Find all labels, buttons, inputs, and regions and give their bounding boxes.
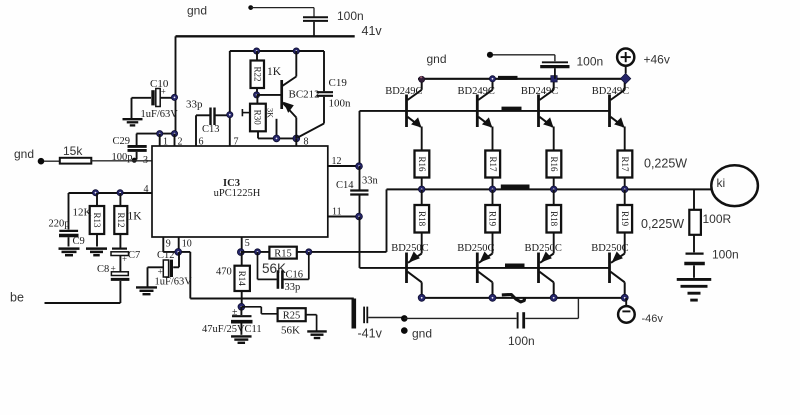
svg-text:1uF/63V: 1uF/63V: [155, 277, 193, 288]
svg-text:C7: C7: [128, 250, 140, 261]
svg-text:ki: ki: [717, 176, 726, 190]
svg-text:BD249C: BD249C: [385, 86, 422, 97]
svg-text:56K: 56K: [281, 325, 300, 337]
ground (C10): [123, 98, 143, 126]
svg-text:C14: C14: [336, 180, 354, 191]
svg-text:100n: 100n: [337, 9, 364, 23]
node: R22 top: [254, 48, 260, 54]
node: C16 right junction: [306, 249, 312, 255]
wire: thick dash on mid rail: [501, 185, 530, 189]
capacitor C7: [111, 249, 140, 272]
node: R12 top: [117, 190, 123, 196]
svg-text:0,225W: 0,225W: [644, 157, 687, 171]
svg-text:12K: 12K: [73, 207, 92, 219]
transistor Q8 BD250C (lower): [591, 243, 628, 298]
ground (R25): [307, 330, 327, 332]
ground (C11): [231, 335, 252, 337]
svg-text:33p: 33p: [186, 99, 203, 111]
resistor R18 (emitter, lower): [415, 189, 430, 253]
svg-text:C29: C29: [113, 136, 131, 147]
svg-text:R19: R19: [620, 211, 630, 227]
resistor R17 (emitter, upper): [618, 151, 633, 190]
node: BC212 collector top: [293, 48, 299, 54]
node: column 2 +46v rail: [489, 76, 495, 82]
resistor R17 (emitter, upper): [485, 151, 500, 190]
capacitor C16 33p: [258, 252, 309, 293]
capacitor 100n (zobel): [684, 248, 738, 278]
svg-text:33n: 33n: [362, 176, 379, 187]
svg-text:7: 7: [234, 137, 239, 148]
wire: output sense drop (mid rail to feedback line): [386, 189, 388, 252]
node: pin 8 junction: [293, 135, 300, 142]
svg-text:R17: R17: [488, 156, 498, 172]
svg-text:1: 1: [163, 137, 168, 148]
wire: base of BC212: [257, 94, 281, 96]
svg-text:C12: C12: [157, 250, 175, 261]
svg-text:C9: C9: [73, 236, 85, 247]
svg-text:R18: R18: [549, 211, 559, 227]
node: pin1 junction: [157, 131, 163, 137]
svg-text:2: 2: [178, 137, 183, 148]
svg-text:C11: C11: [245, 324, 262, 335]
node: C29 to pin3 wire junction: [132, 158, 137, 163]
transistor Q1 BD249C (upper): [385, 79, 422, 151]
node: C10 / 41v vertical junction: [171, 94, 177, 100]
resistor R12 1K: [114, 193, 142, 248]
node: column 1 mid rail: [418, 186, 425, 193]
svg-text:R25: R25: [283, 311, 301, 322]
resistor R18 (emitter, lower): [547, 189, 562, 253]
capacitor C10 1uF/63V: [132, 78, 179, 120]
resistor R22 1K: [251, 51, 282, 95]
wire: vertical from 41v rail to IC pin 2: [136, 36, 175, 133]
wire: upper base rail (pin 12 drive): [360, 110, 610, 112]
wire: +46v collector rail: [418, 78, 628, 80]
wire: pin 5 stub: [241, 237, 243, 252]
svg-text:-46v: -46v: [642, 313, 664, 325]
svg-text:C13: C13: [202, 124, 220, 135]
node: column 3 +46v rail: [551, 76, 557, 82]
node: pin 12 junction: [356, 163, 363, 170]
capacitor C19 100n: [298, 51, 352, 138]
svg-text:be: be: [10, 291, 24, 305]
node: C16 left junction: [254, 249, 260, 255]
wire: pin 8 stub: [295, 138, 297, 146]
resistor R19 (emitter, lower): [485, 189, 500, 253]
svg-text:R17: R17: [620, 156, 630, 172]
wire: thick dash on +46v rail: [498, 76, 518, 80]
capacitor C13 33p: [186, 99, 230, 147]
pin 1: [160, 134, 168, 148]
resistor R14 470: [216, 252, 250, 307]
capacitor C12 1uF/63V: [148, 250, 193, 288]
resistor R16 (emitter, upper): [415, 151, 430, 190]
node: C13/pin7 junction: [227, 112, 233, 118]
svg-text:15k: 15k: [63, 144, 83, 158]
svg-text:100n: 100n: [577, 55, 604, 69]
svg-text:gnd: gnd: [187, 4, 207, 18]
ground (R13): [86, 247, 107, 250]
node: column 3 -46v rail: [550, 294, 557, 301]
svg-text:R22: R22: [252, 66, 262, 81]
trimmer R30: [242, 95, 276, 138]
transistor Q3 BD249C (upper): [521, 79, 558, 151]
svg-text:1K: 1K: [128, 211, 143, 223]
resistor R19 (emitter, lower): [618, 189, 633, 253]
wire: gnd to 100n (upper rail decoupling): [427, 52, 555, 66]
wire: top gnd to 100n decoupling: [187, 4, 314, 18]
resistor R15 56K: [262, 247, 297, 276]
wire: pin9-pin10 link: [163, 251, 190, 253]
capacitor 100n (bottom middle): [404, 312, 578, 348]
resistor 15k (input): [60, 144, 92, 164]
svg-text:3: 3: [143, 155, 148, 166]
svg-text:41v: 41v: [362, 24, 383, 38]
wire: BC212 top rail: [230, 50, 324, 52]
node: column 1 +46v rail: [419, 76, 425, 82]
svg-text:gnd: gnd: [412, 327, 432, 341]
node: column 2 mid rail: [489, 186, 496, 193]
svg-text:100n: 100n: [329, 98, 352, 110]
wire: zigzag on -46v rail: [502, 295, 525, 302]
transistor Q7 BD250C (lower): [525, 243, 562, 298]
svg-text:6: 6: [199, 137, 204, 148]
svg-text:BD250C: BD250C: [525, 243, 562, 254]
capacitor C14 33n: [336, 166, 379, 217]
resistor 100R (zobel): [689, 189, 731, 252]
svg-text:R15: R15: [274, 248, 292, 259]
wire: 41v supply rail: [176, 24, 383, 38]
svg-text:10: 10: [182, 239, 192, 250]
svg-text:47uF/25V: 47uF/25V: [202, 324, 245, 335]
transistor Q6 BD250C (lower): [457, 243, 494, 298]
node: column 1 -46v rail: [418, 294, 425, 301]
ground (C9): [59, 247, 80, 250]
svg-text:8: 8: [304, 137, 309, 148]
svg-text:R12: R12: [116, 212, 126, 227]
svg-text:R16: R16: [549, 156, 559, 172]
svg-text:C16: C16: [286, 270, 304, 281]
svg-text:BC212: BC212: [289, 89, 320, 101]
wire: output / emitter mid rail: [387, 188, 712, 190]
node: R22/R30/base junction: [254, 92, 260, 98]
wire: gnd input (left): [14, 147, 60, 165]
svg-text:470: 470: [216, 267, 232, 278]
svg-text:0,225W: 0,225W: [641, 217, 684, 231]
wire: feedback line pin5 to output: [241, 251, 387, 253]
svg-text:R30: R30: [253, 110, 263, 126]
svg-text:C19: C19: [329, 77, 348, 89]
svg-text:+46v: +46v: [644, 53, 670, 67]
capacitor C11 47uF/25V: [202, 307, 262, 335]
capacitor C8: [97, 264, 129, 303]
op-amp U1 IC3 uPC1225H: [152, 146, 328, 237]
svg-text:5: 5: [245, 238, 250, 249]
+46v supply terminal: [617, 49, 670, 74]
svg-text:R16: R16: [417, 156, 427, 172]
resistor R25 56K: [241, 307, 316, 337]
wire: pin 7 vertical / BC212 loop left side: [229, 51, 231, 146]
svg-text:100n: 100n: [508, 334, 535, 348]
wire: be input: [10, 291, 120, 305]
svg-text:-41v: -41v: [358, 327, 383, 341]
svg-text:1uF/63V: 1uF/63V: [141, 109, 179, 120]
node: pin 10 junction: [175, 249, 182, 256]
capacitor -41v rail (thick plate tap): [354, 299, 405, 341]
wire: pin 9 stub: [162, 237, 164, 252]
node: R30 wiper bottom: [273, 135, 280, 142]
wire: 15k to IC pin 3: [91, 160, 152, 162]
node: pin 5 junction: [237, 249, 244, 256]
svg-text:+: +: [161, 87, 166, 97]
transistor Q5 BC212: [282, 51, 320, 138]
node: column 3 mid rail: [550, 186, 557, 193]
wire: pin 11 to lower base rail: [359, 217, 361, 268]
node: column 2 -46v rail: [489, 294, 496, 301]
wire: lower base rail (pin 11 drive): [360, 267, 610, 269]
wire: thick dash on lower base rail: [505, 263, 525, 267]
svg-text:R14: R14: [237, 271, 247, 287]
svg-text:+: +: [122, 254, 127, 264]
wire: pin 11: [328, 216, 360, 218]
wire: pin 10 to -41v line: [190, 252, 353, 299]
svg-text:33p: 33p: [285, 282, 301, 293]
wire: 100n to -46v rail: [577, 298, 579, 319]
wire: pin 4 to bias network: [69, 193, 153, 230]
wire: thick dash on upper base rail: [502, 107, 522, 111]
transistor Q2 BD249C (upper): [458, 79, 495, 151]
svg-text:220p: 220p: [49, 219, 70, 230]
capacitor 100n (+46v rail decoupling): [540, 55, 603, 79]
wire: R30/pin8 bottom wire: [258, 137, 296, 139]
svg-text:R13: R13: [92, 212, 102, 228]
resistor R16 (emitter, upper): [547, 151, 562, 190]
node: +46v supply junction: [620, 73, 630, 83]
node: pin2 junction: [171, 131, 177, 137]
svg-text:9: 9: [166, 239, 171, 250]
node: gnd reference dots (bottom): [401, 315, 432, 340]
pin 2: [175, 134, 183, 148]
svg-text:1K: 1K: [267, 66, 282, 78]
resistor R13 12K: [73, 193, 105, 247]
svg-text:100R: 100R: [703, 212, 732, 226]
svg-text:BD250C: BD250C: [391, 243, 428, 254]
wire: pin 10 stub: [178, 237, 180, 252]
transistor Q5 BD250C (lower): [391, 243, 428, 298]
node: column 4 mid rail: [621, 186, 628, 193]
transistor Q4 BD249C (upper): [592, 79, 629, 151]
ground (C12): [136, 267, 157, 294]
capacitor C29 100p: [112, 134, 147, 163]
svg-text:C8: C8: [97, 264, 109, 275]
node: column 4 -46v rail: [621, 294, 628, 301]
-46v supply terminal: [618, 298, 663, 325]
svg-text:100n: 100n: [712, 248, 739, 262]
wire: pin 12 to driver rail: [328, 111, 360, 166]
wire: -46v collector rail: [422, 297, 626, 299]
svg-text:3K: 3K: [266, 108, 275, 118]
svg-text:BD250C: BD250C: [457, 243, 494, 254]
capacitor C9 220p: [49, 219, 85, 248]
capacitor 100n (top, 41v rail decoupling): [303, 9, 364, 36]
ground (zobel): [677, 278, 712, 281]
svg-text:uPC1225H: uPC1225H: [214, 188, 261, 199]
svg-text:R18: R18: [417, 211, 427, 227]
svg-text:R19: R19: [488, 211, 498, 227]
svg-text:gnd: gnd: [14, 147, 34, 161]
node: R13 top: [92, 190, 98, 196]
node: pin 11 junction: [356, 213, 363, 220]
node: C11 top junction: [238, 303, 245, 310]
speaker ki: [711, 165, 758, 206]
svg-text:gnd: gnd: [427, 52, 447, 66]
